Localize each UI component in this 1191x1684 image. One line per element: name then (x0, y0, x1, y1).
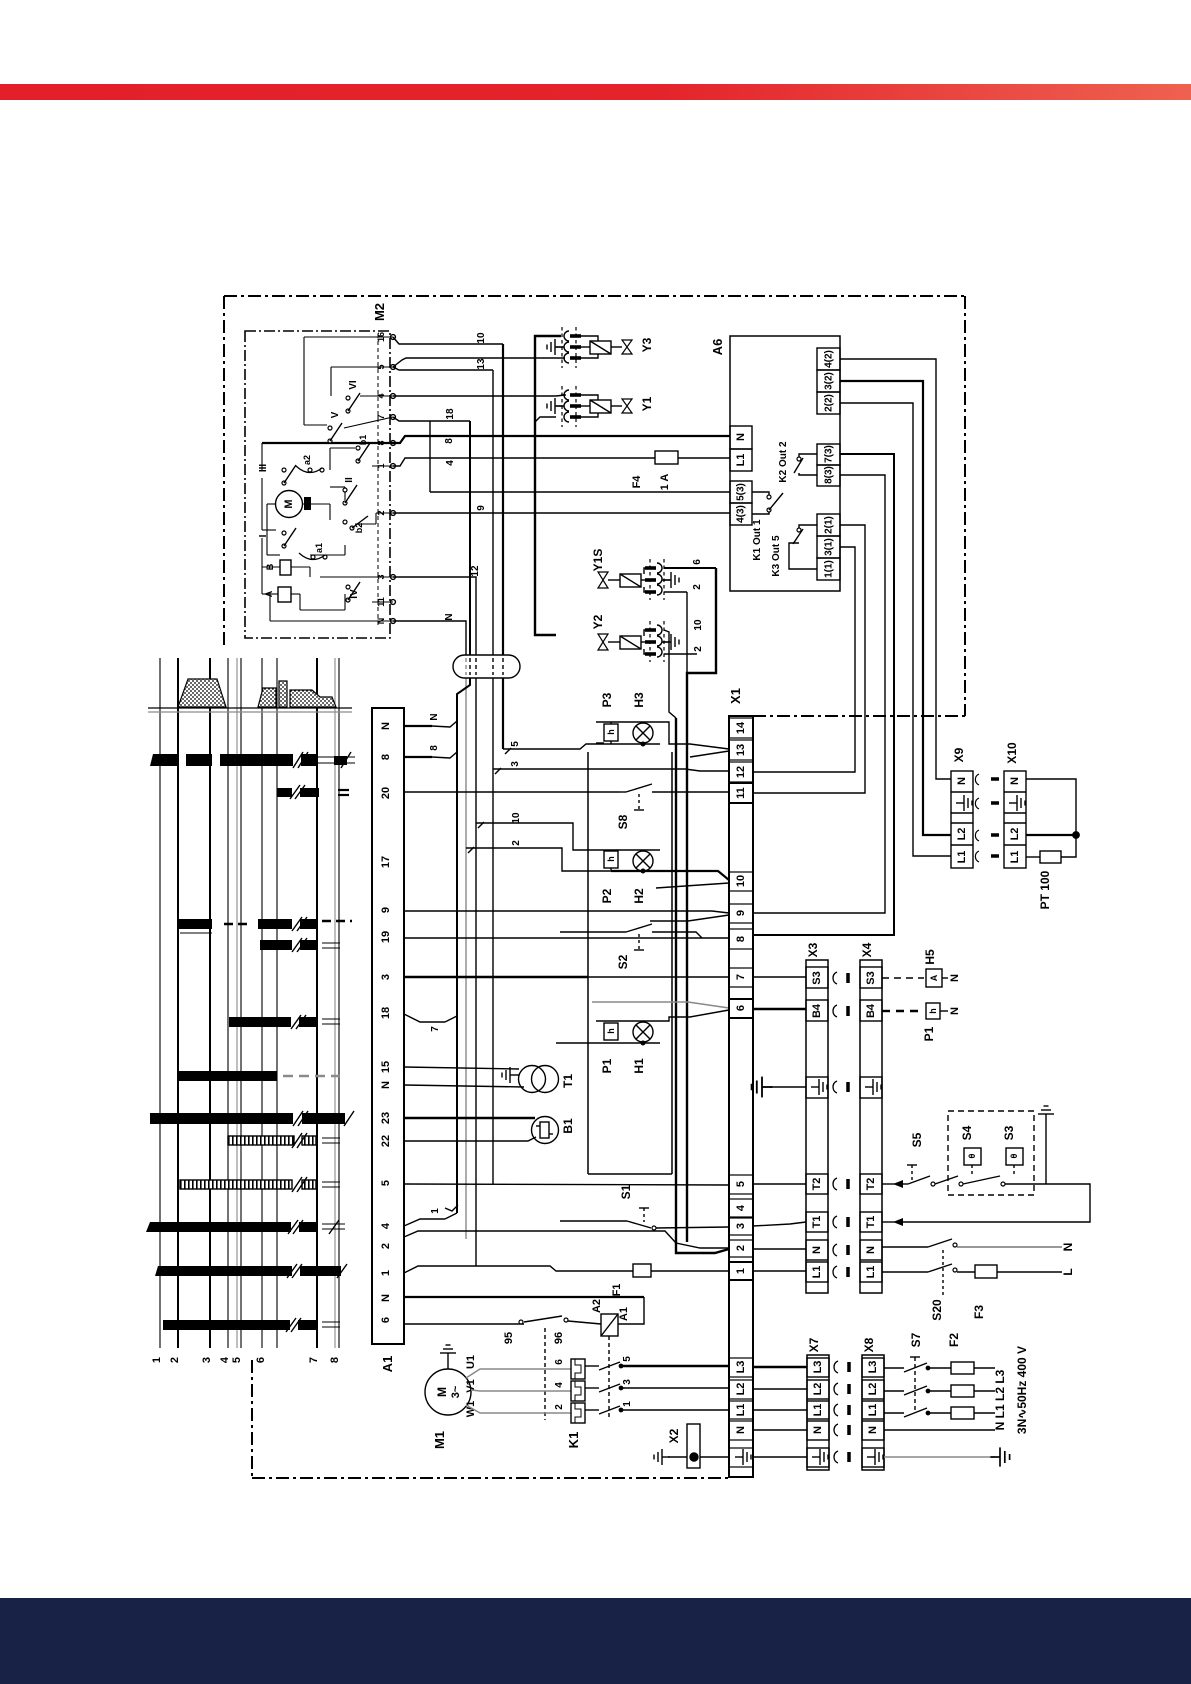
wire A1-N tag N (404, 713, 457, 727)
M2 contact a1 (299, 543, 327, 560)
svg-text:II: II (344, 477, 355, 483)
svg-text:L1: L1 (956, 851, 968, 864)
M2 contact b1 (356, 435, 370, 463)
X3 cell labels (811, 971, 823, 1278)
M2 contact IV (346, 582, 360, 602)
svg-text:X8: X8 (862, 1337, 876, 1352)
svg-text:F1: F1 (611, 1284, 623, 1297)
svg-text:h: h (606, 856, 616, 862)
svg-text:S3: S3 (865, 971, 877, 984)
svg-text:M1: M1 (432, 1431, 447, 1449)
svg-text:N: N (735, 433, 747, 441)
svg-text:L1: L1 (735, 1404, 747, 1417)
svg-text:20: 20 (380, 787, 392, 799)
svg-text:Y1S: Y1S (591, 549, 605, 572)
svg-text:K2 Out 2: K2 Out 2 (778, 441, 789, 483)
svg-text:19: 19 (380, 931, 392, 943)
mains fuses F2 (928, 1333, 995, 1419)
svg-text:13: 13 (735, 744, 747, 756)
solenoid valve Y1 connector (547, 386, 581, 427)
wire frame right edge (964, 296, 966, 716)
temperature probe PT 100 (1026, 779, 1079, 909)
svg-text:8: 8 (735, 936, 747, 942)
svg-text:L: L (1061, 1268, 1075, 1275)
svg-text:VI: VI (348, 380, 359, 390)
A6 terminal block 7(3) 8(3) (817, 444, 840, 486)
svg-text:10: 10 (511, 812, 522, 824)
svg-text:4: 4 (554, 1382, 565, 1388)
relay circuit lower wire (404, 1323, 524, 1325)
svg-text:2: 2 (380, 1243, 392, 1249)
svg-text:L3: L3 (735, 1361, 747, 1374)
svg-text:III: III (258, 464, 269, 473)
wire A1-4 tag 1 row (404, 1205, 458, 1226)
svg-text:5: 5 (231, 1357, 243, 1363)
svg-text:B4: B4 (811, 1003, 823, 1018)
svg-text:10: 10 (693, 619, 704, 631)
svg-text:6: 6 (380, 1317, 392, 1323)
contact K2 Out 2 (778, 441, 817, 483)
svg-text:23: 23 (380, 1112, 392, 1124)
cam bar row 4 (146, 1222, 317, 1232)
svg-text:2: 2 (735, 1245, 747, 1251)
valve Y1S connector (645, 559, 679, 600)
switch S1 (560, 1184, 729, 1230)
svg-text:θ: θ (1009, 1153, 1019, 1158)
svg-text:S4: S4 (960, 1125, 974, 1140)
svg-text:10: 10 (476, 332, 487, 344)
wire A1-15 to T1 (404, 1067, 519, 1069)
svg-text:4: 4 (219, 1356, 231, 1363)
terminal block X8 (862, 1337, 884, 1470)
svg-text:5: 5 (510, 741, 521, 747)
svg-text:T1: T1 (561, 1074, 575, 1088)
svg-text:Y1: Y1 (640, 396, 654, 411)
M2 contact III (258, 464, 296, 485)
svg-text:X3: X3 (806, 942, 820, 957)
svg-text:N: N (956, 777, 968, 785)
svg-text:5(3): 5(3) (736, 483, 747, 501)
cam bar row 18 (229, 1017, 317, 1027)
M2 outgoing wire 4 (393, 458, 655, 466)
M2 outgoing wire to Y1 (393, 395, 565, 396)
wire frame left edge (223, 296, 225, 648)
A6 feed wire row (430, 491, 730, 493)
contact K3 Out 5 (771, 525, 817, 577)
svg-text:N: N (1009, 777, 1021, 785)
cam bar row 6 (163, 1320, 317, 1330)
fuse F4 (631, 451, 730, 490)
svg-text:N: N (735, 1426, 747, 1434)
cam bar row 22 (hatched) (228, 1133, 340, 1148)
svg-text:H3: H3 (632, 692, 646, 708)
X7 labels (812, 1361, 824, 1434)
svg-text:A6: A6 (710, 339, 725, 356)
svg-text:15: 15 (380, 1061, 392, 1073)
svg-text:PT 100: PT 100 (1038, 870, 1052, 909)
svg-text:A2: A2 (591, 1299, 603, 1313)
svg-text:4(3): 4(3) (736, 505, 747, 523)
terminal block X4 (860, 942, 882, 1293)
svg-text:P1: P1 (922, 1026, 936, 1041)
A6 terminal block 5(3) 4(3) (730, 481, 752, 525)
svg-text:h: h (606, 729, 616, 735)
svg-text:95: 95 (503, 1332, 515, 1344)
svg-text:M: M (283, 499, 295, 508)
X1 to X7 link wires (753, 1367, 807, 1457)
wire frame top edge (224, 295, 965, 297)
svg-text:8(3): 8(3) (824, 466, 835, 484)
sensor B1 (532, 1117, 576, 1144)
svg-text:b2: b2 (354, 523, 364, 534)
svg-text:F4: F4 (631, 475, 643, 489)
staircase feed wire 2 (466, 840, 611, 871)
svg-text:3(1): 3(1) (824, 538, 835, 556)
K1 heater wire tags (554, 1356, 633, 1410)
wire A6 3(2) to X9 L2 (840, 381, 951, 835)
svg-text:1: 1 (622, 1401, 633, 1407)
thermostat S4 (935, 1125, 981, 1186)
X1-9 funnel lower arm (650, 915, 729, 921)
operating panel outline (588, 752, 672, 1174)
vertical bus net 6/2 step (687, 568, 716, 1242)
vertical bus wire 18 run (457, 421, 470, 1213)
wire A1-19 to X1-8 (404, 937, 729, 939)
switch S8 (616, 784, 730, 829)
wire frame lower left edge (251, 1360, 253, 1478)
cam chart line numbers (151, 1356, 341, 1363)
svg-text:A1: A1 (380, 1356, 395, 1373)
M2 outgoing wire 13 (393, 358, 493, 370)
M2 contact II (343, 477, 357, 505)
wire Y1S lower to bus (686, 592, 688, 673)
wire A1-2 to X1-2 (404, 1231, 730, 1248)
svg-text:B1: B1 (561, 1118, 575, 1134)
svg-text:L1: L1 (812, 1404, 824, 1417)
wire A1-5 to X1-5 (404, 1184, 729, 1185)
wire Y2 tag 10 (664, 619, 704, 718)
svg-text:3: 3 (510, 761, 521, 767)
vertical bus wire 13 run (492, 370, 494, 1184)
svg-text:X4: X4 (860, 942, 874, 957)
svg-text:12: 12 (735, 766, 747, 778)
svg-text:N: N (444, 613, 455, 620)
svg-text:3: 3 (380, 974, 392, 980)
machine boundary frame (dash-dot) (224, 296, 965, 1478)
M2 resistor A (264, 587, 291, 602)
svg-text:6: 6 (692, 559, 703, 565)
svg-text:9: 9 (476, 505, 487, 511)
svg-text:L3: L3 (812, 1361, 824, 1374)
svg-text:W1: W1 (465, 1401, 477, 1418)
wire Y2 tag 2 (664, 646, 704, 654)
svg-text:L1: L1 (1009, 851, 1021, 864)
valve supply bus (535, 336, 561, 635)
svg-text:L1: L1 (867, 1404, 879, 1417)
lamp H1 (632, 1022, 653, 1074)
svg-text:F3: F3 (972, 1305, 986, 1319)
wire A1-23 to B1 (404, 1117, 535, 1119)
svg-text:T2: T2 (811, 1178, 823, 1191)
thermostat box S4 S3 (948, 1106, 1054, 1195)
svg-text:X10: X10 (1005, 742, 1019, 764)
svg-text:U1: U1 (465, 1355, 477, 1369)
staircase feed wire 3 (493, 761, 729, 774)
svg-text:1: 1 (430, 1208, 441, 1214)
svg-text:4: 4 (380, 1222, 392, 1229)
svg-text:2(2): 2(2) (824, 394, 835, 412)
svg-text:K3 Out 5: K3 Out 5 (771, 535, 782, 577)
vertical bus net 10 (676, 718, 729, 1253)
K1 main contacts (585, 1362, 623, 1414)
svg-text:K1: K1 (566, 1432, 581, 1449)
svg-text:5: 5 (622, 1356, 633, 1362)
svg-text:11: 11 (735, 787, 747, 799)
svg-text:3: 3 (735, 1223, 747, 1229)
M2 contact I (258, 528, 296, 548)
svg-text:96: 96 (553, 1332, 565, 1344)
svg-text:M2: M2 (372, 303, 387, 321)
svg-text:I: I (258, 534, 269, 537)
svg-text:9: 9 (380, 907, 392, 913)
M2 terminal numbers (376, 332, 386, 624)
solenoid valve Y2 (591, 614, 648, 654)
M2 outgoing wire 18 (393, 408, 470, 421)
M2 contact VI (346, 380, 360, 413)
pressure indicator P1 (882, 1003, 961, 1041)
svg-text:14: 14 (735, 721, 747, 734)
X4 cell labels (865, 971, 877, 1278)
svg-text:H5: H5 (923, 949, 937, 965)
svg-text:3: 3 (622, 1379, 633, 1385)
X3-X4 connector pins (833, 972, 848, 1278)
A1 terminal numbers (380, 722, 392, 1323)
mains PE wire (884, 1447, 1010, 1466)
solenoid valve Y3 (581, 336, 654, 358)
thermostat S3 (963, 1125, 1046, 1186)
svg-text:Y3: Y3 (640, 337, 654, 352)
svg-text:5: 5 (735, 1181, 747, 1187)
svg-text:L1: L1 (865, 1266, 877, 1279)
cam bar row 1 (155, 1266, 341, 1276)
M2 outgoing wire 12 (393, 565, 481, 1266)
svg-text:2: 2 (693, 646, 704, 652)
svg-text:Y2: Y2 (591, 614, 605, 629)
svg-text:X2: X2 (667, 1428, 681, 1443)
svg-text:2: 2 (511, 840, 522, 846)
svg-text:9: 9 (735, 910, 747, 916)
svg-text:L1: L1 (735, 454, 747, 467)
svg-text:10: 10 (735, 875, 747, 887)
relay board A6 (710, 336, 840, 591)
svg-text:18: 18 (380, 1007, 392, 1019)
lamp H1 wiring (556, 1002, 729, 1045)
wire Y1S to X1-10 tag 6 (664, 559, 716, 568)
terminal block X3 (806, 942, 828, 1293)
wire A1-N to T1 (404, 1085, 524, 1087)
svg-text:S1: S1 (619, 1184, 633, 1199)
wire A6 8(3) to X1-9 (753, 475, 885, 913)
svg-text:N: N (429, 713, 440, 720)
svg-text:S20: S20 (930, 1299, 944, 1321)
overload contact 95-96 (503, 1316, 601, 1420)
terminal strip X1 (728, 688, 753, 1477)
svg-text:M: M (435, 1387, 449, 1397)
M2 resistor B (265, 560, 291, 575)
svg-text:S2: S2 (616, 954, 630, 969)
svg-text:B: B (265, 563, 275, 570)
svg-text:θ: θ (967, 1153, 977, 1158)
svg-text:V: V (330, 411, 341, 418)
cam profile trapezoid group 2 (258, 681, 336, 707)
svg-text:L2: L2 (956, 828, 968, 841)
solenoid valve Y1S (591, 549, 648, 592)
mains labels (993, 1346, 1029, 1434)
svg-text:3~: 3~ (450, 1385, 462, 1398)
svg-text:L3: L3 (867, 1361, 879, 1374)
svg-text:A: A (929, 974, 939, 981)
M2 outgoing wire 9 (393, 505, 730, 513)
staircase feed wire 5 (503, 741, 611, 754)
indicator P1 (600, 1023, 618, 1073)
svg-text:22: 22 (380, 1135, 392, 1147)
pilot lamp H5 (882, 949, 961, 987)
switch S2 (560, 924, 702, 969)
connector X10 (1004, 742, 1026, 868)
svg-text:a2: a2 (302, 455, 312, 465)
svg-text:X1: X1 (728, 688, 743, 704)
svg-text:1 A: 1 A (659, 474, 671, 491)
svg-text:3N∿50Hz 400 V: 3N∿50Hz 400 V (1015, 1346, 1029, 1434)
svg-text:5: 5 (380, 1180, 392, 1186)
svg-text:X7: X7 (807, 1337, 821, 1352)
lamp H3 wiring (596, 722, 729, 757)
svg-text:8: 8 (380, 754, 392, 760)
earth terminal X2 (654, 1424, 729, 1468)
svg-text:N L1 L2 L3: N L1 L2 L3 (993, 1369, 1007, 1430)
wire frame inner edge (753, 715, 965, 717)
overload K1 heaters (566, 1359, 585, 1448)
M2 outgoing wire N (393, 613, 466, 1239)
svg-text:N: N (867, 1426, 879, 1434)
switch S5 (882, 1132, 935, 1188)
cam bar row 9 (178, 919, 317, 929)
electronic board A1 strip (372, 708, 404, 1372)
M2 outgoing wire 10 (393, 332, 503, 344)
svg-text:8: 8 (444, 438, 455, 444)
cam bar row 23 (150, 1113, 345, 1124)
wire A6 7(3) to X1-8 (753, 454, 894, 935)
M2 outgoing wire to Y3 (393, 358, 565, 367)
timer motor M (276, 491, 312, 518)
svg-text:N: N (380, 1294, 392, 1302)
cam bar row 19 (260, 940, 317, 950)
fuse F1 (611, 1264, 730, 1296)
connector X9-X10 pins (975, 774, 999, 862)
svg-text:S7: S7 (909, 1332, 923, 1347)
wire Y1S tag 2 (664, 584, 703, 592)
X8 labels (867, 1361, 879, 1434)
svg-text:T1: T1 (811, 1216, 823, 1229)
connector X9 (951, 747, 973, 868)
contactor coil A2 A1 (591, 1297, 644, 1420)
svg-text:L2: L2 (812, 1383, 824, 1396)
cam bar row 8 (150, 754, 347, 766)
svg-text:L2: L2 (735, 1383, 747, 1396)
wires K1 to X1 L3 L2 L1 (621, 1366, 729, 1410)
svg-text:4: 4 (735, 1204, 747, 1211)
motor M1 (425, 1345, 471, 1449)
svg-text:N: N (380, 722, 392, 730)
svg-text:A1: A1 (618, 1307, 630, 1321)
lamp H3 (632, 692, 653, 743)
svg-text:17: 17 (380, 856, 392, 868)
cam bar row 5 (hatched) (180, 1177, 340, 1192)
svg-text:S3: S3 (1002, 1125, 1016, 1140)
M2 contact V (328, 411, 342, 443)
vertical bus wire 10 run (502, 344, 504, 749)
X1 terminal cells (729, 718, 753, 1467)
X1 terminal labels (735, 721, 747, 1434)
svg-text:8: 8 (329, 1357, 341, 1363)
svg-text:1: 1 (151, 1357, 163, 1363)
svg-text:2: 2 (554, 1404, 565, 1410)
program cam chart vertical lines (160, 658, 339, 1348)
svg-text:a1: a1 (314, 543, 324, 553)
svg-text:T1: T1 (865, 1216, 877, 1229)
svg-text:6: 6 (255, 1357, 267, 1363)
svg-text:N: N (812, 1426, 824, 1434)
svg-text:13: 13 (476, 358, 487, 370)
wire X4-T1 loop (882, 1184, 1090, 1226)
indicator P2 (600, 851, 618, 903)
svg-text:7: 7 (308, 1357, 320, 1363)
svg-text:H2: H2 (632, 888, 646, 904)
svg-text:12: 12 (470, 565, 481, 577)
svg-text:6: 6 (554, 1359, 565, 1365)
M2 terminal column nodes (378, 334, 395, 628)
svg-text:T2: T2 (865, 1178, 877, 1191)
cam profile trapezoid 1 (178, 679, 226, 707)
transformer T1 (502, 1066, 575, 1093)
svg-text:4(2): 4(2) (824, 350, 835, 368)
svg-text:B4: B4 (865, 1003, 877, 1018)
svg-text:3: 3 (201, 1357, 213, 1363)
wire A1-1 via F1 to X1-1 (404, 1266, 633, 1273)
timer assembly M2 box (245, 303, 390, 638)
svg-text:P1: P1 (600, 1058, 614, 1073)
wire A6 4(2) to X9 N (840, 359, 951, 779)
M2 contact a2 (296, 455, 324, 473)
red header bar (0, 84, 1191, 100)
svg-text:N: N (949, 974, 961, 982)
svg-text:18: 18 (445, 408, 456, 420)
X3 ground wire (752, 1077, 806, 1098)
M2 internal wiring (262, 337, 393, 621)
svg-text:N: N (811, 1246, 823, 1254)
M2 contact b2 (343, 516, 368, 533)
M2 outgoing wire 8 (393, 436, 730, 444)
svg-text:b1: b1 (358, 435, 368, 446)
wire A6 3(1) to X1-12 (753, 547, 855, 772)
svg-text:P3: P3 (600, 692, 614, 707)
svg-text:N: N (1061, 1243, 1075, 1252)
motor terminal labels (465, 1355, 477, 1417)
svg-text:S5: S5 (910, 1132, 924, 1147)
svg-text:1(1): 1(1) (824, 560, 835, 578)
mains N wire (884, 1429, 995, 1431)
A6 terminal block 4(2) 3(2) 2(2) (817, 348, 840, 414)
